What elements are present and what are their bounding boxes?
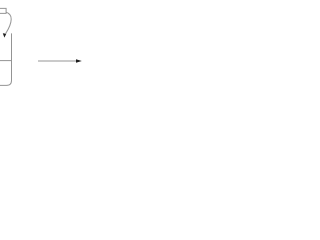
reaction arrowhead [76,59,82,62]
curved arrowhead [3,33,7,37]
liquid level line [0,60,12,62]
test tube right wall with rounded bottom (vessel cut off at left) [0,33,12,85]
reaction arrow shaft [38,60,77,62]
reagent box (cut off at left edge) [0,8,6,13]
curved add-reagent arrow [6,12,11,33]
